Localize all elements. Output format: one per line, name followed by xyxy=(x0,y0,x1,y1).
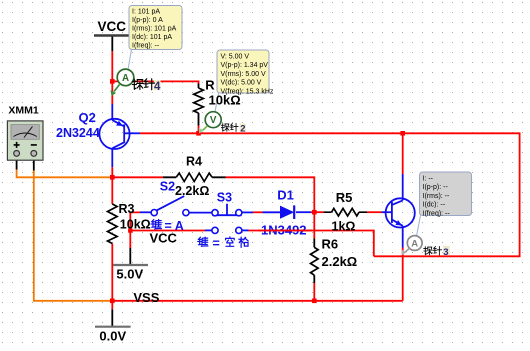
svg-text:1kΩ: 1kΩ xyxy=(332,220,356,234)
svg-text:R5: R5 xyxy=(336,190,353,205)
svg-text:VSS: VSS xyxy=(133,290,159,305)
svg-text:I(p-p): 0 A: I(p-p): 0 A xyxy=(132,17,163,24)
svg-text:0.0V: 0.0V xyxy=(99,328,126,343)
svg-text:I(rms): --: I(rms): -- xyxy=(423,193,450,200)
svg-text:I(p-p): --: I(p-p): -- xyxy=(423,184,449,191)
svg-text:V(rms): 5.00 V: V(rms): 5.00 V xyxy=(221,71,266,78)
svg-text:V(p-p): 1.34 pV: V(p-p): 1.34 pV xyxy=(221,62,269,69)
svg-text:I(dc): 101 pA: I(dc): 101 pA xyxy=(132,34,172,41)
svg-text:Q2: Q2 xyxy=(79,110,96,125)
svg-text:S2: S2 xyxy=(160,180,175,194)
svg-text:V: V xyxy=(210,115,217,126)
svg-text:2.2kΩ: 2.2kΩ xyxy=(322,254,358,269)
svg-text:I(freq): --: I(freq): -- xyxy=(423,210,451,217)
svg-text:V(dc): 5.00 V: V(dc): 5.00 V xyxy=(221,80,262,87)
svg-text:10kΩ: 10kΩ xyxy=(209,92,241,107)
svg-text:I(dc): --: I(dc): -- xyxy=(423,202,446,209)
svg-text:2: 2 xyxy=(240,124,245,135)
svg-text:R6: R6 xyxy=(322,236,339,251)
svg-text:= A: = A xyxy=(165,219,184,233)
svg-text:4: 4 xyxy=(154,81,161,93)
svg-text:XMM1: XMM1 xyxy=(8,105,38,117)
svg-text:5.0V: 5.0V xyxy=(116,266,143,281)
svg-text:I(rms): 101 pA: I(rms): 101 pA xyxy=(132,26,177,33)
svg-text:A: A xyxy=(411,239,418,250)
svg-text:R: R xyxy=(205,77,215,92)
svg-text:=: = xyxy=(213,236,220,250)
svg-text:I(freq): --: I(freq): -- xyxy=(132,43,160,50)
svg-text:3: 3 xyxy=(443,247,448,258)
svg-text:VCC: VCC xyxy=(98,19,127,34)
svg-text:A: A xyxy=(122,73,129,84)
svg-text:D1: D1 xyxy=(277,187,294,202)
svg-text:S3: S3 xyxy=(217,191,232,205)
svg-text:I: 101 pA: I: 101 pA xyxy=(132,9,160,16)
svg-text:2.2kΩ: 2.2kΩ xyxy=(175,184,209,198)
svg-text:R3: R3 xyxy=(119,202,135,216)
svg-text:I: --: I: -- xyxy=(423,176,434,183)
svg-text:2N3244: 2N3244 xyxy=(56,126,100,140)
svg-text:V: 5.00 V: V: 5.00 V xyxy=(221,54,250,61)
svg-text:10kΩ: 10kΩ xyxy=(120,218,151,232)
svg-text:R4: R4 xyxy=(186,154,202,168)
